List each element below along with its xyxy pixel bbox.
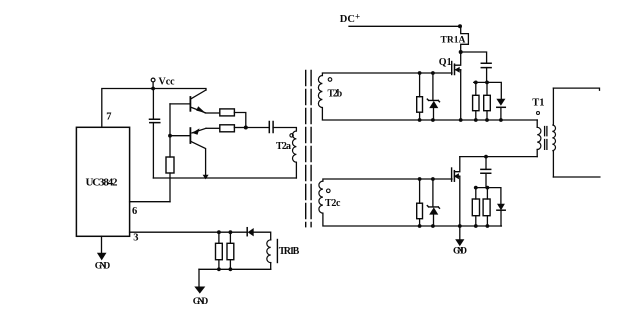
svg-text:TR1B: TR1B	[279, 246, 300, 257]
resistor R2 (lower emitter, horizontal)	[220, 125, 235, 132]
resistor R11 (gate-source lower)	[419, 179, 421, 203]
svg-text:6: 6	[132, 206, 137, 217]
wire snubber top distribution	[474, 82, 502, 98]
svg-text:T2c: T2c	[325, 198, 341, 209]
svg-text:UC3842: UC3842	[86, 177, 119, 189]
wire lower snubber distribution	[475, 188, 501, 204]
node R4-rail junction	[474, 118, 478, 122]
diode D1 (snubber)	[496, 99, 505, 106]
node R5-rail junction	[485, 118, 489, 122]
wire Vcc rail to Q3 collector	[153, 89, 206, 91]
node ZD2-rail junction	[431, 224, 435, 228]
node return-R8	[229, 267, 233, 271]
wire base line vertical	[169, 104, 171, 157]
node R1/R2 junction	[244, 126, 248, 130]
winding TR1B	[267, 240, 271, 263]
node snub left	[474, 81, 478, 85]
ground (Q2 source)	[459, 226, 461, 239]
winding T2c	[319, 181, 323, 213]
svg-text:GND: GND	[95, 261, 111, 271]
node R10-rail junction	[486, 224, 490, 228]
node R6-rail junction	[418, 118, 422, 122]
node drain-cap	[484, 155, 488, 159]
core TR1B	[276, 240, 278, 263]
svg-text:T2a: T2a	[276, 141, 291, 152]
capacitor C3 (Q1 drain snubber)	[461, 52, 487, 63]
svg-text:GND: GND	[453, 247, 467, 257]
MOSFET Q1	[455, 52, 461, 65]
diode D3 (on pin3 wire, cathode left)	[246, 228, 248, 236]
node Q1 source-rail junction	[459, 118, 463, 122]
wire T2c bottom / lower rail	[323, 213, 502, 226]
wire pin 6	[130, 201, 170, 203]
svg-text:DC+: DC+	[340, 12, 360, 25]
wire TR1B return	[199, 268, 271, 270]
svg-text:Vcc: Vcc	[159, 77, 176, 88]
wire common rail (left section bottom)	[153, 177, 296, 179]
node R9-rail junction	[474, 224, 478, 228]
core T1	[545, 127, 547, 150]
wire T2b top to Q1 gate	[322, 73, 452, 76]
diode D2 (snubber)	[497, 204, 505, 210]
winding TR1A	[461, 26, 469, 52]
node Vcc terminal	[151, 78, 155, 82]
core T2 (dashed)	[305, 71, 307, 227]
resistor R5 (snubber)	[486, 82, 488, 95]
resistor R3 (base, vertical)	[166, 157, 174, 173]
transformer T1 primary winding	[536, 120, 538, 127]
node Q2 source-rail junction	[458, 224, 462, 228]
wire secondary bottom out	[553, 176, 600, 178]
resistor R1 (upper emitter, horizontal)	[220, 109, 235, 116]
wire to coupling cap	[246, 127, 269, 129]
node snub mid	[485, 81, 489, 85]
resistor R9 (snubber)	[475, 188, 477, 199]
capacitor C1 (Vcc decoupling)	[152, 89, 154, 120]
MOSFET Q2	[454, 157, 459, 172]
svg-text:T2b: T2b	[328, 88, 343, 99]
resistor R4 (snubber)	[475, 82, 477, 95]
transistor Q4 (PNP, lower driver)	[170, 135, 190, 137]
node pin3-R7	[217, 230, 221, 234]
node DC+/TR1A	[458, 24, 462, 28]
transistor Q3 (NPN, upper driver)	[170, 103, 190, 105]
IC U1 UC3842 box	[76, 127, 129, 236]
capacitor C4 (Q2 snubber)	[485, 157, 487, 170]
svg-text:3: 3	[133, 233, 138, 244]
resistor R8 (vertical)	[229, 232, 231, 243]
wire T2b bottom / upper rail	[322, 108, 537, 120]
wire Q2 drain to T1	[460, 156, 537, 158]
svg-text:TR1A: TR1A	[441, 36, 466, 46]
svg-text:Q1: Q1	[439, 57, 452, 68]
wire secondary top out	[553, 88, 599, 90]
zener ZD1 (gate protect)	[432, 73, 434, 100]
winding T2b	[318, 76, 322, 108]
ground (TR1B return)	[198, 269, 200, 286]
capacitor C2 (coupling to T2a)	[269, 122, 273, 133]
svg-text:T1: T1	[532, 98, 544, 109]
node gate-R6	[418, 71, 422, 75]
node R11-rail junction	[418, 224, 422, 228]
node D1-rail junction	[499, 118, 503, 122]
svg-text:GND: GND	[193, 297, 209, 307]
node return-R7	[217, 267, 221, 271]
transformer T1 secondary winding	[552, 88, 554, 125]
node TR1A bottom / drain	[459, 50, 463, 54]
wire DC+	[349, 25, 461, 27]
wire T2c top to Q2 gate	[323, 179, 452, 181]
ground (under UC3842)	[101, 236, 103, 252]
resistor R7 (vertical)	[218, 232, 220, 243]
winding T2a	[293, 131, 297, 162]
node pin3-R8	[229, 230, 233, 234]
svg-text:7: 7	[106, 111, 111, 122]
wire pin 3	[130, 231, 246, 233]
zener ZD2 (gate protect lower)	[432, 179, 434, 207]
node ZD1-rail junction	[431, 118, 435, 122]
resistor R10 (snubber)	[486, 188, 488, 199]
pin 7 wire (box top to Vcc rail)	[102, 89, 153, 128]
resistor R6 (gate-source)	[419, 73, 421, 97]
node base junction	[168, 134, 172, 138]
